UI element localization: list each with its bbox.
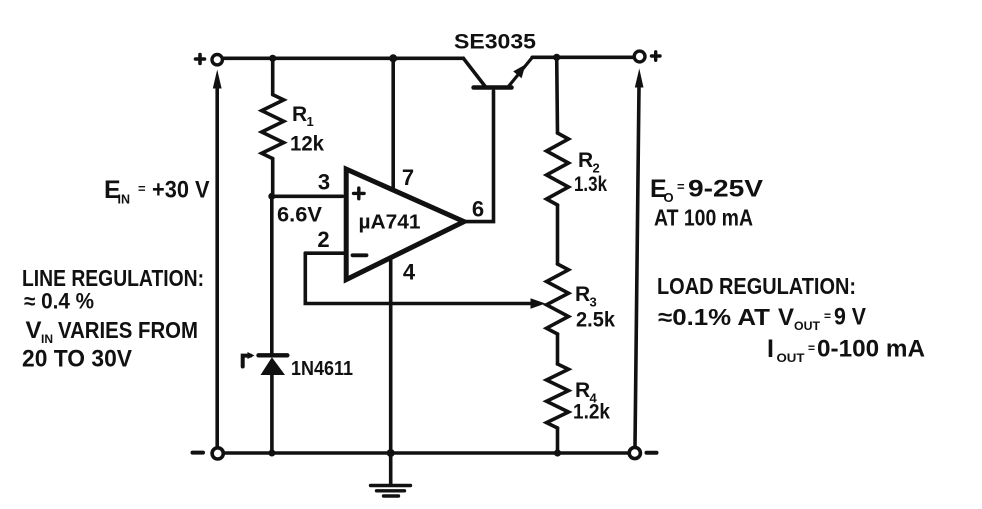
- svg-text:VARIES FROM: VARIES FROM: [58, 317, 198, 343]
- op-amp plus input marker: [354, 188, 365, 199]
- node junction pin7/top rail: [389, 54, 397, 62]
- svg-text:=: =: [808, 341, 815, 355]
- svg-text:AT 100 mA: AT 100 mA: [654, 205, 753, 231]
- wire feedback loop to R3 wiper: [305, 253, 545, 309]
- wire top rail right segment: [532, 55, 633, 59]
- wire pin 4 to ground: [389, 259, 393, 485]
- label R3: [575, 283, 597, 310]
- node junction pin4/bottom rail: [387, 449, 395, 457]
- wire pin 7 supply: [391, 58, 395, 190]
- svg-text:LINE REGULATION:: LINE REGULATION:: [22, 265, 204, 291]
- svg-text:9-25V: 9-25V: [688, 176, 763, 203]
- svg-text:SE3035: SE3035: [454, 30, 536, 54]
- svg-text:R: R: [575, 283, 590, 306]
- wire R2 top lead: [555, 57, 559, 133]
- wire E_O measurement arrow (right rail): [635, 69, 644, 447]
- op-amp U1 uA741 triangle: [346, 169, 464, 280]
- label R1: [292, 103, 314, 129]
- wire E_IN measurement arrow (left rail): [213, 70, 222, 447]
- svg-text:OUT: OUT: [794, 319, 821, 333]
- svg-text:2.5k: 2.5k: [576, 309, 615, 332]
- annotation E_IN = +30 V: [104, 176, 210, 207]
- node - output terminal: [629, 447, 656, 458]
- svg-text:R: R: [578, 149, 593, 172]
- svg-text:0-100 mA: 0-100 mA: [817, 336, 925, 363]
- transistor Q1 SE3035: [463, 58, 532, 88]
- svg-text:1: 1: [307, 114, 314, 129]
- node junction R4/bottom rail: [554, 449, 561, 456]
- annotation E_O = 9-25V: [650, 175, 763, 205]
- annotation 0.1% AT V_OUT = 9 V: [658, 304, 866, 334]
- wire top rail left segment: [224, 56, 464, 60]
- annotation V_IN VARIES FROM: [26, 317, 199, 346]
- svg-text:6.6V: 6.6V: [277, 203, 323, 227]
- node junction 6.6V node: [268, 193, 275, 200]
- node - input terminal: [193, 448, 224, 459]
- svg-text:O: O: [664, 190, 674, 205]
- node + input terminal: [196, 55, 223, 65]
- node + output terminal: [634, 51, 660, 62]
- wire R3-R4: [556, 334, 560, 364]
- svg-text:I: I: [767, 335, 774, 363]
- svg-text:9 V: 9 V: [834, 304, 866, 331]
- node junction emitter/R2: [553, 54, 560, 61]
- svg-text:12k: 12k: [290, 132, 324, 156]
- svg-text:IN: IN: [118, 193, 131, 207]
- svg-text:3: 3: [590, 295, 597, 310]
- svg-text:µA741: µA741: [359, 212, 421, 234]
- ground: [371, 486, 411, 497]
- wire zener to 6.6V node: [270, 196, 274, 353]
- wire R4 bottom lead: [556, 428, 560, 453]
- svg-text:1.2k: 1.2k: [573, 401, 610, 424]
- svg-text:4: 4: [403, 260, 416, 285]
- svg-text:7: 7: [402, 165, 414, 190]
- svg-text:LOAD REGULATION:: LOAD REGULATION:: [657, 273, 856, 299]
- svg-text:V: V: [778, 304, 794, 331]
- svg-text:=: =: [677, 179, 685, 194]
- svg-text:20 TO 30V: 20 TO 30V: [22, 346, 133, 373]
- node junction zener/bottom rail: [268, 450, 275, 457]
- svg-text:2: 2: [317, 227, 329, 252]
- wire pin 2 input: [305, 251, 344, 255]
- svg-text:R: R: [292, 103, 307, 126]
- resistor R2: [547, 133, 569, 205]
- svg-text:1.3k: 1.3k: [574, 173, 607, 196]
- op-amp minus input marker: [353, 253, 367, 257]
- svg-text:3: 3: [318, 170, 330, 195]
- label R2: [578, 149, 600, 176]
- node junction R1/top rail: [269, 55, 276, 62]
- svg-text:6: 6: [472, 197, 484, 222]
- annotation I_OUT = 0-100 mA: [767, 335, 925, 365]
- svg-text:1N4611: 1N4611: [291, 358, 353, 380]
- svg-text:OUT: OUT: [777, 351, 806, 365]
- zener diode D1 1N4611: [243, 352, 288, 453]
- label R4: [575, 379, 598, 406]
- svg-text:R: R: [575, 379, 590, 402]
- svg-text:≈ 0.4 %: ≈ 0.4 %: [24, 289, 94, 314]
- wire R2-R3: [556, 205, 560, 264]
- resistor R4: [547, 364, 569, 428]
- resistor R1: [262, 58, 284, 196]
- svg-text:V: V: [26, 317, 42, 344]
- svg-text:≈0.1% AT: ≈0.1% AT: [658, 304, 770, 330]
- svg-text:IN: IN: [41, 332, 53, 346]
- svg-text:+30 V: +30 V: [152, 177, 210, 204]
- svg-text:=: =: [138, 181, 146, 196]
- wire pin 6 output to transistor base: [464, 91, 494, 222]
- wire pin 3 input: [272, 195, 343, 199]
- wire bottom rail: [225, 451, 629, 455]
- svg-text:=: =: [824, 309, 831, 323]
- resistor R3 potentiometer: [547, 264, 569, 334]
